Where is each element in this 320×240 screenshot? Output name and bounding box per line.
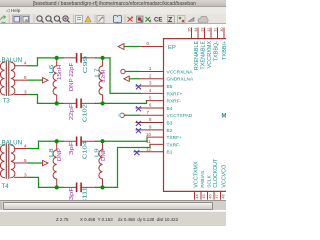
svg-text:VCCRXMX: VCCRXMX — [207, 41, 213, 69]
svg-text:T4: T4 — [2, 183, 10, 190]
IC top pins — [192, 28, 225, 39]
svg-text:DNP: DNP — [57, 148, 63, 161]
svg-text:B2: B2 — [167, 128, 173, 134]
inductor L9 — [99, 142, 103, 188]
svg-text:5: 5 — [24, 158, 27, 163]
svg-text:PABIAS: PABIAS — [200, 171, 206, 188]
wire RX top rail — [38, 57, 64, 59]
svg-text:CLOCKOUT: CLOCKOUT — [213, 158, 219, 188]
svg-text:4: 4 — [149, 18, 152, 23]
svg-text:2: 2 — [149, 74, 152, 79]
svg-text:44: 44 — [195, 195, 199, 199]
svg-text:15nH: 15nH — [57, 65, 63, 81]
svg-text:CE: CE — [154, 17, 162, 23]
pin 5 RXRF- — [147, 100, 164, 102]
svg-text:TXENABLE: TXENABLE — [201, 41, 207, 70]
wire top rail to pin4 — [110, 58, 140, 94]
inductor L7 — [99, 58, 103, 104]
T3 pin 4 — [15, 65, 29, 67]
svg-text:5: 5 — [24, 75, 27, 80]
svg-text:Z: Z — [168, 17, 173, 24]
balun T3 left winding — [0, 62, 4, 95]
svg-text:L8: L8 — [49, 149, 55, 158]
hier label triangle T3 pin5 — [43, 78, 49, 83]
wire RX bottom rail — [38, 103, 64, 105]
svg-text:RXRF+: RXRF+ — [167, 92, 183, 98]
svg-text:C111: C111 — [83, 187, 89, 200]
svg-text:T3: T3 — [3, 98, 11, 105]
svg-text:46: 46 — [208, 195, 212, 199]
wire T3 pin3 to bottom rail — [28, 95, 38, 104]
svg-text:5: 5 — [149, 96, 152, 101]
svg-text:DNP 22pF: DNP 22pF — [69, 62, 75, 91]
pin 6 B4 — [136, 107, 164, 109]
svg-text:RXRF-: RXRF- — [167, 99, 182, 105]
pin 4 RXRF+ — [140, 93, 164, 95]
svg-text:11: 11 — [146, 139, 151, 144]
wire T4 pin4 to TX top rail — [28, 142, 39, 149]
junction RX bottom-right — [101, 102, 105, 106]
T4 pin 3 — [15, 177, 29, 179]
pin 3 B5 — [136, 85, 164, 87]
svg-text:1: 1 — [149, 66, 152, 71]
pin 0 EP — [139, 46, 164, 48]
svg-text:3: 3 — [149, 81, 152, 86]
svg-text:22pF: 22pF — [69, 103, 75, 120]
pin 12 B1 — [134, 151, 164, 153]
svg-text:3pF: 3pF — [69, 140, 75, 155]
svg-text:0: 0 — [147, 42, 150, 47]
svg-text:3: 3 — [24, 90, 27, 95]
IC box — [164, 39, 227, 192]
svg-text:VCCTXPAD: VCCTXPAD — [167, 114, 193, 120]
balun T4 left winding — [0, 145, 4, 178]
wire T3 pin4 to top rail — [28, 58, 38, 66]
svg-text:VCCTXMX: VCCTXMX — [194, 161, 200, 188]
svg-text:33: 33 — [200, 28, 204, 32]
inductor L8 — [53, 142, 57, 188]
horizontal scrollbar — [0, 200, 226, 211]
svg-text:DNP: DNP — [101, 148, 107, 161]
IC bottom pins — [195, 192, 221, 200]
balun T3 right winding — [11, 62, 15, 95]
svg-text:LBALUN: LBALUN — [0, 140, 22, 147]
capacitor C104 — [63, 141, 76, 143]
svg-text:VCCVCO: VCCVCO — [222, 165, 226, 188]
svg-text:B4: B4 — [167, 106, 173, 112]
svg-text:4: 4 — [24, 61, 27, 66]
wire T4 pin3 to TX bottom rail — [28, 178, 39, 188]
wire rail jog to pin5 — [146, 101, 148, 104]
svg-text:RXENABLE: RXENABLE — [194, 41, 200, 71]
capacitor C102 — [63, 103, 76, 105]
svg-text:EP: EP — [168, 45, 176, 51]
T4 pin 5 — [15, 162, 29, 164]
junction RX top-left — [55, 56, 59, 60]
pin 8 B3 — [136, 122, 164, 124]
svg-text:30: 30 — [220, 28, 224, 32]
junction TX top-left — [55, 139, 59, 143]
svg-text:VCCRXLNA: VCCRXLNA — [167, 70, 194, 76]
svg-text:8.2nH: 8.2nH — [101, 70, 107, 82]
capacitor C111 — [63, 187, 76, 189]
hier label triangle T4 pin5 — [43, 161, 49, 166]
junction TX top-right — [100, 139, 104, 143]
title bar — [0, 0, 226, 7]
svg-text:C99: C99 — [83, 56, 89, 74]
wire TX top rail — [39, 141, 64, 143]
svg-text:M: M — [222, 114, 227, 120]
wire T4 pin5 stub — [28, 162, 43, 164]
svg-text:C102: C102 — [83, 104, 89, 122]
svg-text:3: 3 — [24, 173, 27, 178]
balun T4 right winding — [11, 145, 15, 178]
IC bottom pin numbers — [195, 195, 225, 199]
wire TX top rail jog to pin10 — [146, 137, 148, 141]
svg-text:B1: B1 — [167, 150, 173, 156]
svg-text:TXRF+: TXRF+ — [167, 135, 183, 141]
svg-text:8: 8 — [149, 118, 152, 123]
pin 9 B2 — [136, 129, 164, 131]
wire TX bottom rail to pin11 — [118, 145, 151, 188]
capacitor C99 — [63, 57, 76, 59]
IC bottom pin names — [194, 158, 228, 188]
pin 7 VCCTXPAD — [139, 115, 164, 117]
junction RX top-right — [101, 56, 105, 60]
svg-text:SCLK: SCLK — [207, 175, 213, 188]
svg-text:L9: L9 — [95, 149, 101, 158]
inductor L6 — [53, 58, 57, 104]
IC top pin numbers — [187, 28, 224, 32]
svg-text:B3: B3 — [167, 121, 173, 127]
svg-text:3pF: 3pF — [69, 186, 75, 200]
toolbar — [0, 14, 226, 25]
svg-text:C104: C104 — [83, 141, 89, 159]
wire T3 pin5 stub — [28, 79, 43, 81]
T3 pin 5 — [15, 79, 29, 81]
junction TX bottom-right — [100, 186, 104, 190]
svg-text:34: 34 — [194, 28, 198, 32]
svg-text:9: 9 — [149, 125, 152, 130]
svg-text:31: 31 — [213, 28, 217, 32]
schematic canvas — [0, 24, 226, 200]
svg-text:48: 48 — [221, 195, 225, 199]
svg-text:47: 47 — [215, 195, 219, 199]
T3 pin 3 — [15, 94, 29, 96]
balun T4 core — [5, 145, 7, 179]
svg-text:L6: L6 — [49, 65, 55, 74]
svg-text:LBALUN: LBALUN — [0, 57, 22, 64]
pin 10 TXRF+ — [147, 136, 164, 138]
global label triangle EP — [118, 44, 124, 50]
svg-text:10: 10 — [146, 132, 151, 137]
wire TX bottom rail — [39, 187, 64, 189]
svg-text:TXBBI+: TXBBI+ — [222, 41, 226, 60]
balun T3 core — [5, 62, 7, 96]
svg-text:TXBBQ-: TXBBQ- — [214, 41, 220, 62]
svg-text:32: 32 — [207, 28, 211, 32]
junction TX bottom-left — [55, 186, 59, 190]
IC top pin names — [194, 41, 228, 71]
svg-text:TXRF-: TXRF- — [167, 143, 182, 149]
svg-text:GNDRXLNA: GNDRXLNA — [167, 77, 194, 83]
svg-text:35: 35 — [187, 28, 191, 32]
svg-text:4: 4 — [149, 88, 152, 93]
pin 1 VCCRXLNA — [139, 71, 164, 73]
svg-text:7: 7 — [147, 110, 150, 115]
svg-text:45: 45 — [202, 195, 206, 199]
svg-text:B5: B5 — [167, 84, 173, 90]
menu bar — [0, 7, 226, 14]
svg-text:L7: L7 — [95, 68, 101, 77]
svg-text:6: 6 — [149, 103, 152, 108]
junction RX bottom-left — [55, 102, 59, 106]
svg-text:12: 12 — [146, 147, 151, 152]
pin 11 TXRF- — [150, 144, 164, 146]
status bar — [0, 211, 226, 227]
svg-text:4: 4 — [24, 144, 27, 149]
pin 2 GNDRXLNA — [139, 78, 164, 80]
T4 pin 4 — [15, 148, 29, 150]
